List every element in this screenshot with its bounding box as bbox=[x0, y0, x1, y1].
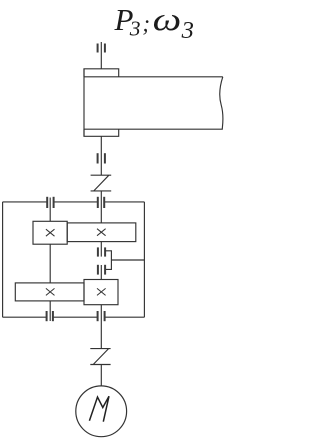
gear z1 (upper-right, on output shaft) bbox=[67, 223, 136, 242]
svg-text:3: 3 bbox=[181, 17, 194, 44]
gear z2 (upper-left, on intermediate shaft) bbox=[33, 221, 67, 244]
input shaft upper stub bbox=[100, 265, 102, 280]
bearing of intermediate shaft in top wall bbox=[47, 197, 53, 208]
bearing above drum bbox=[98, 44, 105, 53]
bearing of input shaft in bottom wall bbox=[98, 311, 105, 321]
shaft of drum (lower segment) bbox=[100, 136, 102, 175]
shaft of drum (upper segment) bbox=[100, 42, 102, 69]
intermediate shaft bbox=[49, 198, 51, 322]
fixed joint mark of z3 bbox=[97, 288, 106, 295]
input shaft (through bottom wall to coupling) bbox=[100, 305, 102, 349]
motor M bbox=[76, 386, 127, 437]
svg-text:ω: ω bbox=[153, 2, 182, 38]
bearing below drum bbox=[98, 153, 105, 163]
coupling 1 (between drum shaft and gearbox output shaft) bbox=[91, 175, 112, 191]
svg-text:3: 3 bbox=[129, 17, 141, 41]
middle support bracket bbox=[105, 251, 111, 270]
drum break line (wavy right edge) bbox=[220, 77, 223, 129]
drum body bbox=[84, 69, 223, 137]
output shaft lower stub bbox=[100, 242, 102, 257]
motor shaft bbox=[100, 365, 102, 386]
fixed joint mark of z1 bbox=[97, 229, 106, 236]
gearbox housing bbox=[3, 202, 145, 317]
middle support link to housing wall bbox=[111, 259, 144, 261]
coupling 2 (between motor and gearbox input shaft) bbox=[90, 349, 110, 365]
drum hub top bbox=[84, 69, 119, 77]
gearbox output shaft (from coupling into housing) bbox=[100, 191, 102, 223]
letter M bbox=[89, 396, 109, 422]
gear z4 (lower-left, on intermediate shaft) bbox=[15, 283, 84, 301]
middle support bearing (lower pair) bbox=[98, 265, 105, 275]
fixed joint mark of z2 bbox=[46, 229, 55, 236]
middle support bearing (upper pair) bbox=[98, 247, 105, 256]
fixed joint mark of z4 bbox=[46, 288, 55, 295]
svg-text:;: ; bbox=[142, 11, 150, 36]
bearing of intermediate shaft in bottom wall bbox=[47, 311, 53, 321]
bearing of output shaft in top wall bbox=[98, 197, 104, 208]
drum hub bottom bbox=[84, 129, 119, 136]
gear z3 (lower-right pinion, on input shaft) bbox=[84, 280, 118, 305]
label P3; w3 bbox=[114, 2, 194, 44]
